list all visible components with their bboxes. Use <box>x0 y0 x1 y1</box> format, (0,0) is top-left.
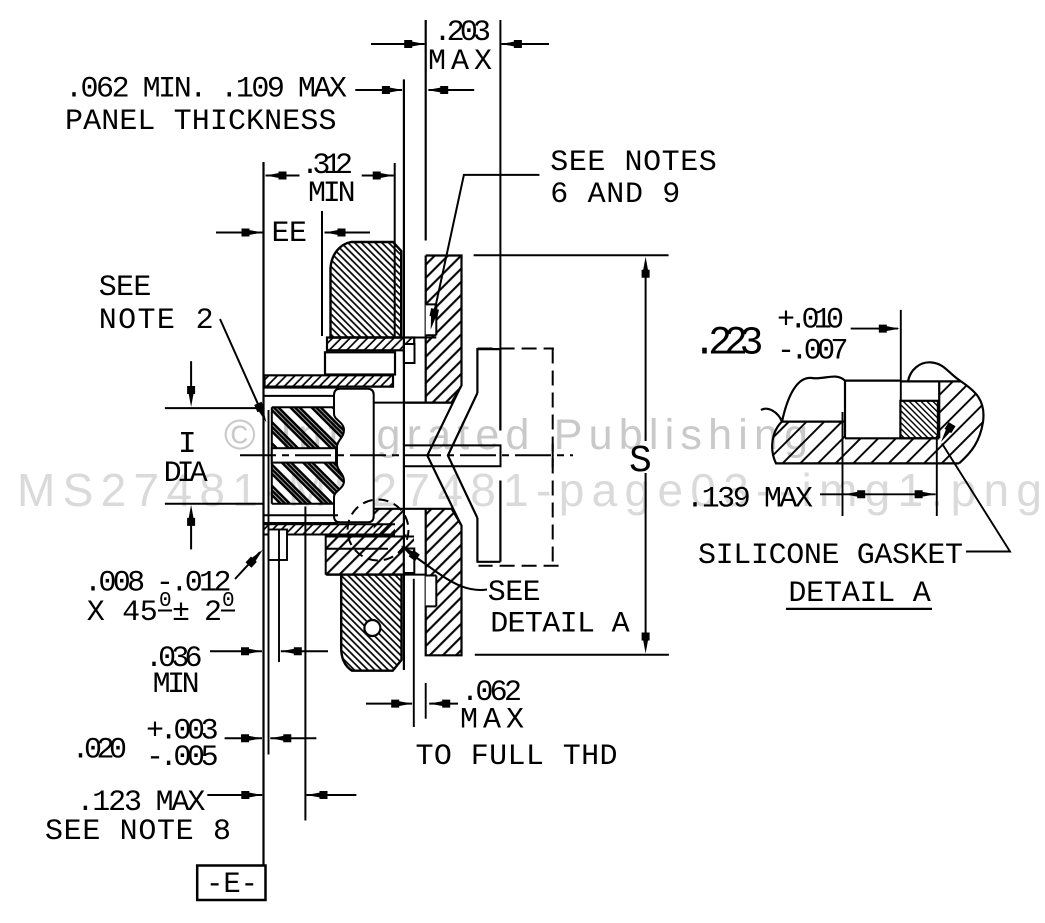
dim I DIA upper arrow <box>187 361 195 407</box>
shell wall web lower <box>374 509 404 535</box>
dim .139 extensions <box>843 412 937 516</box>
leader see notes 6 and 9 <box>427 175 540 330</box>
detail A title underline <box>786 608 932 610</box>
dim .312 lines <box>266 172 394 180</box>
panel hole top edge <box>374 402 452 404</box>
leader see detail A <box>398 542 487 590</box>
svg-text:DETAIL A: DETAIL A <box>788 577 930 611</box>
grommet rear lip step <box>269 530 288 663</box>
dim .036 lines <box>210 647 328 655</box>
contact pin <box>404 445 501 466</box>
svg-text:MAX: MAX <box>428 45 492 79</box>
datum E label <box>206 868 258 902</box>
jam nut skirt rect upper <box>325 352 395 374</box>
svg-text:-.005: -.005 <box>146 741 219 775</box>
svg-text:S: S <box>629 440 652 483</box>
dim .203 MAX lines <box>371 40 549 48</box>
degree underlines <box>158 610 235 612</box>
svg-text:± 2: ± 2 <box>172 596 222 630</box>
svg-text:SEE NOTES: SEE NOTES <box>550 146 717 180</box>
svg-text:6 AND 9: 6 AND 9 <box>550 178 680 212</box>
svg-text:MIN: MIN <box>308 177 356 211</box>
svg-text:+.010: +.010 <box>777 304 844 338</box>
full thread line <box>413 579 415 727</box>
shell rear cone outer <box>448 393 478 518</box>
shell barrel wall strip lower <box>265 524 396 534</box>
gasket groove notch upper <box>426 304 437 335</box>
svg-text:TO FULL THD: TO FULL THD <box>416 740 618 774</box>
leader silicone gasket <box>938 422 1010 551</box>
washer tab upper <box>404 344 415 363</box>
panel rear face line lower extension <box>425 683 427 719</box>
leader chamfer .008 <box>235 547 266 579</box>
jam nut washer strip upper <box>327 338 436 351</box>
dim I DIA upper edge <box>165 407 264 409</box>
svg-text:X 45: X 45 <box>87 596 158 630</box>
dim panel thickness lines <box>355 86 474 94</box>
dim .123 lines <box>207 791 356 799</box>
dim .062 thd lines <box>366 700 458 708</box>
svg-text:.020: .020 <box>72 733 128 767</box>
dim S line <box>642 257 650 654</box>
bottom bore line 2 <box>265 522 339 524</box>
jam nut upper section <box>331 242 402 338</box>
svg-text:MAX: MAX <box>460 704 524 738</box>
detail A silicone gasket <box>900 401 938 439</box>
washer tab lower <box>404 549 414 574</box>
svg-text:-E-: -E- <box>206 868 258 902</box>
dim .223 extension <box>900 310 902 401</box>
receptacle flange lower section <box>374 509 462 656</box>
shell front face line (datum E edge) <box>262 162 264 866</box>
socket cavity <box>334 389 374 523</box>
detail A panel and flange section <box>772 381 983 463</box>
bottom bore line 1 <box>265 514 339 516</box>
shell rear cone inner <box>427 386 461 524</box>
resilient insert section <box>272 407 347 504</box>
svg-text:SEE: SEE <box>99 271 152 305</box>
jam nut lower section <box>327 575 402 671</box>
detail A flange outline with break <box>900 381 983 463</box>
dim I DIA lower edge <box>165 503 264 505</box>
shell barrel wall strip upper <box>265 375 394 386</box>
detail A boundary circle dashed <box>348 500 409 561</box>
shell bore line upper 2 <box>265 395 339 397</box>
svg-text:SEE NOTE 8: SEE NOTE 8 <box>45 815 231 849</box>
svg-text:EE: EE <box>272 217 308 251</box>
grommet wire bore <box>272 448 336 462</box>
dim EE right extension <box>321 211 323 336</box>
dim .020 lines <box>225 734 317 742</box>
datum E extension to box <box>197 866 265 901</box>
svg-text:.223: .223 <box>693 322 764 367</box>
receptacle flange upper section <box>405 256 462 403</box>
shell wall block lower <box>326 535 426 575</box>
centerline <box>240 454 573 456</box>
detail A flange top break bump <box>908 362 961 381</box>
detail A shell fragment <box>761 377 900 439</box>
svg-text:.062 MIN. .109 MAX: .062 MIN. .109 MAX <box>65 73 347 107</box>
svg-text:-.007: -.007 <box>777 334 849 368</box>
svg-text:SILICONE GASKET: SILICONE GASKET <box>698 539 963 573</box>
leader see note 2 <box>220 319 270 424</box>
dim .203 ext right <box>499 20 501 431</box>
panel rear face line upper <box>425 20 427 241</box>
svg-text:.139 MAX: .139 MAX <box>686 483 813 517</box>
dim S top extension <box>474 254 669 256</box>
rear barrel outline lower <box>477 481 501 562</box>
dim .223 line <box>851 325 900 333</box>
mating plug hidden outline dashed <box>478 349 559 566</box>
plug centerline tick <box>552 444 554 468</box>
gasket groove notch lower <box>426 576 437 607</box>
svg-text:PANEL THICKNESS: PANEL THICKNESS <box>65 105 337 139</box>
dim EE lines <box>216 229 370 237</box>
svg-text:NOTE 2: NOTE 2 <box>99 304 214 338</box>
safety wire hole <box>364 620 380 636</box>
dim .139 line <box>820 490 936 498</box>
dim .123 right extension <box>304 507 306 821</box>
svg-text:SEE: SEE <box>488 576 541 610</box>
svg-text:DIA: DIA <box>164 457 208 491</box>
rear barrel outline upper <box>477 349 500 430</box>
dim I DIA lower arrow <box>187 505 195 550</box>
svg-text:DETAIL A: DETAIL A <box>490 608 630 642</box>
dim S bottom extension <box>475 654 669 656</box>
grommet front lip line <box>268 410 270 755</box>
dim .312 right extension <box>394 163 396 338</box>
svg-text:MIN: MIN <box>153 668 200 702</box>
shell bore line upper 1 <box>265 387 339 389</box>
panel front face line <box>403 79 405 670</box>
